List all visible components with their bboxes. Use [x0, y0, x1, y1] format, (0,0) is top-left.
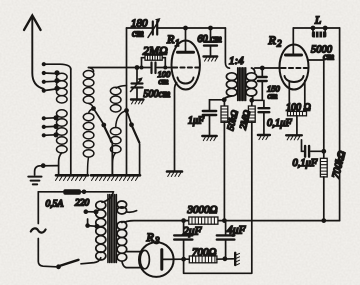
earth terminal dot: [41, 163, 46, 168]
chassis ground bar 2: [91, 175, 140, 180]
R3 anode lead: [162, 258, 184, 260]
svg-text:500cm: 500cm: [144, 89, 171, 100]
coil L2 lower loops: [83, 109, 94, 176]
coil L3 lower loops: [110, 111, 126, 176]
R3 filament ellipse: [140, 250, 149, 268]
transformer 1:4 core: [238, 68, 246, 101]
svg-text:3: 3: [154, 236, 160, 246]
R1 anode: [185, 28, 187, 51]
svg-text:cm: cm: [268, 91, 278, 101]
primary tap 1: [84, 209, 99, 214]
ground 60cm: [204, 57, 218, 62]
junction dot secondary bottom: [249, 98, 254, 103]
earth wire: [35, 166, 59, 175]
R2 anode: [292, 28, 294, 54]
tube R1: [172, 41, 200, 90]
svg-text:2MΩ: 2MΩ: [143, 44, 168, 58]
svg-text:R: R: [146, 230, 155, 244]
wire top rail corner down to transformer primary: [225, 28, 229, 68]
svg-text:1:4: 1:4: [229, 55, 244, 67]
svg-text:4μF: 4μF: [227, 225, 247, 237]
svg-text:1: 1: [175, 38, 180, 48]
antenna tap terminals (upper group): [42, 62, 60, 93]
svg-text:220: 220: [75, 199, 90, 209]
antenna: [24, 16, 44, 89]
chassis ground right of 700 Ohm: [235, 253, 239, 265]
variable capacitor 500cm: [131, 68, 143, 100]
capacitor 0.1uF (AF grid): [259, 100, 270, 134]
chassis ground bar 1: [56, 175, 89, 180]
R2 top wire to phones: [293, 27, 339, 29]
R2 grid (dashed): [282, 67, 308, 69]
svg-text:1μF: 1μF: [188, 116, 205, 127]
ground 500cm: [131, 100, 144, 104]
junction dot 220: [82, 190, 87, 195]
junction dots 700 Ohm: [181, 257, 186, 262]
resistor 2M (AF): [184, 100, 256, 273]
switch S1: [94, 109, 113, 176]
fuse 0.5A: [38, 189, 113, 195]
capacitor 2uF: [174, 221, 192, 260]
power transformer primary loops: [96, 192, 113, 260]
trimmer capacitor 180cm: [148, 18, 161, 38]
junction dot 500cm: [135, 65, 140, 70]
secondary 4V winding: [117, 201, 136, 214]
coil L3 upper loops: [110, 86, 126, 113]
svg-text:60 cm: 60 cm: [198, 34, 222, 45]
capacitor 0.1uF (right): [302, 140, 324, 157]
mains switch: [56, 258, 101, 269]
coil L1 upper loops: [57, 73, 68, 103]
resistor 700 Ohm: [184, 256, 234, 263]
svg-text:R: R: [166, 32, 175, 46]
capacitor 60cm: [204, 28, 217, 56]
right rail: [339, 28, 341, 221]
secondary HV winding: [117, 222, 127, 268]
ground 1uF: [202, 136, 216, 141]
svg-text:2: 2: [277, 39, 282, 49]
svg-text:R: R: [268, 33, 277, 47]
AC tilde: [31, 228, 46, 232]
tap terminals (lower group): [42, 115, 59, 137]
5000cm corner wire from R2: [308, 60, 324, 150]
resistor 100 Ohm: [288, 111, 307, 134]
top rail: [127, 27, 226, 29]
svg-text:L: L: [314, 15, 321, 27]
switch S2: [127, 111, 140, 176]
secondary top lead to R2 grid: [255, 67, 282, 69]
tap leads (upper group): [44, 64, 71, 90]
resistor 2MOhm grid: [145, 55, 162, 60]
junction dots B+ rail: [181, 218, 186, 223]
junction dot grid 150cm: [260, 66, 265, 71]
junction dot primary bottom: [222, 97, 227, 102]
resistor 2M (grid leak) leads: [142, 58, 166, 68]
grid wire: [88, 67, 172, 69]
svg-text:100 Ω: 100 Ω: [286, 103, 311, 114]
svg-text:0,1μF: 0,1μF: [267, 118, 292, 129]
grid capacitor 100cm: [152, 63, 156, 74]
svg-text:3000Ω: 3000Ω: [187, 204, 218, 216]
svg-text:cm: cm: [323, 53, 334, 63]
capacitor 1uF: [203, 100, 224, 136]
tube R3 rectifier: [139, 242, 174, 277]
svg-text:cm: cm: [159, 76, 169, 86]
svg-text:0,5A: 0,5A: [46, 200, 64, 210]
tap leads (lower group): [44, 118, 55, 136]
svg-text:cm: cm: [132, 29, 144, 40]
svg-text:700Ω: 700Ω: [192, 247, 217, 259]
R2 filament leads: [289, 81, 305, 112]
tube R2: [280, 45, 309, 90]
coil L3 riser from top rail through grid wire down to chassis: [126, 28, 128, 175]
junction dot 0.1uF right: [321, 149, 326, 154]
transformer 1:4 primary loops: [224, 73, 237, 100]
coil L1 return wire: [70, 69, 72, 176]
ground 100 Ohm: [286, 135, 302, 140]
R1 filament arc: [178, 78, 194, 84]
resistor 3000 Ohm: [189, 217, 218, 224]
svg-text:2μF: 2μF: [183, 226, 203, 238]
phone terminals L: [311, 26, 316, 31]
phones coil L lump: [312, 28, 327, 38]
coil L1 bottom lead: [59, 153, 62, 175]
ground 0.1uF AF: [258, 135, 270, 140]
R1 filament lead down: [175, 83, 177, 172]
R3 anode bar: [160, 250, 163, 270]
primary tap 2: [85, 219, 99, 229]
power transformer core: [108, 195, 117, 263]
R3 filament leads: [126, 252, 140, 268]
chassis ground bar R1: [167, 172, 182, 177]
junction dot 60cm: [208, 26, 213, 31]
transformer 1:4 secondary loops: [246, 68, 257, 100]
junction dot anode riser: [183, 26, 188, 31]
resistor 700k: [320, 151, 327, 220]
R2 filament arc: [285, 76, 304, 82]
coil L2 node dot: [91, 106, 96, 111]
coil L1 lower loops: [57, 110, 68, 153]
B+ rail: [127, 220, 340, 223]
svg-text:0,1μF: 0,1μF: [293, 158, 318, 169]
resistor 50k: [221, 100, 228, 221]
coil L2 upper loops: [83, 68, 94, 109]
capacitor 150cm: [252, 68, 267, 100]
earth ground symbol: [28, 177, 41, 185]
capacitor 4uF: [217, 221, 235, 259]
AC source wire left: [38, 192, 56, 267]
R1 grid (dashed): [173, 67, 199, 69]
coil L3 node dot: [124, 108, 129, 113]
